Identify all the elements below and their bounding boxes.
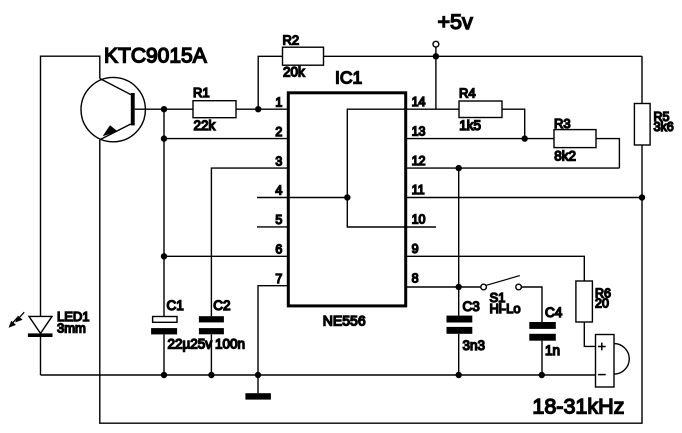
op-amp U1 IC1 NE556 body bbox=[288, 93, 405, 306]
transistor Q1 base bar bbox=[131, 93, 135, 125]
node pin12 junction bbox=[456, 165, 462, 171]
node C3 bottom bbox=[456, 372, 462, 378]
svg-text:13: 13 bbox=[412, 124, 426, 138]
wire pin 2 bbox=[164, 138, 288, 140]
pin 6 bbox=[275, 243, 282, 257]
svg-text:11: 11 bbox=[412, 183, 425, 197]
wire R3 to pin 12 bbox=[596, 139, 619, 169]
pin 5 bbox=[275, 213, 282, 227]
node pin2 junction bbox=[161, 135, 167, 141]
node C1 bottom bbox=[161, 372, 167, 378]
sounder piezo bbox=[596, 335, 630, 388]
wire pin 3 to C2 bbox=[211, 168, 288, 316]
pin 11 bbox=[412, 183, 425, 197]
svg-text:10: 10 bbox=[412, 213, 426, 227]
ground bbox=[245, 375, 271, 400]
wire pin 7 to ground bbox=[258, 286, 288, 375]
label +5v bbox=[438, 10, 474, 34]
wire LED to bottom bbox=[40, 337, 42, 375]
svg-text:5: 5 bbox=[275, 213, 282, 227]
wire R4 to pin 13 bbox=[502, 109, 525, 138]
svg-text:Hi-Lo: Hi-Lo bbox=[490, 301, 521, 316]
svg-text:100n: 100n bbox=[215, 336, 245, 351]
label NE556 bbox=[323, 313, 366, 329]
capacitor C2 bbox=[199, 298, 245, 351]
svg-text:R3: R3 bbox=[554, 116, 571, 131]
svg-text:IC1: IC1 bbox=[335, 68, 362, 88]
wire pin12 column to C3 bbox=[458, 168, 460, 316]
pin 7 bbox=[275, 272, 282, 286]
pin 14 bbox=[412, 95, 426, 109]
wire left column pin2-pin6-C1 bbox=[163, 109, 165, 316]
transistor Q1 circle bbox=[81, 77, 145, 141]
pin 10 bbox=[412, 213, 426, 227]
wire C4 to bottom bbox=[541, 341, 543, 375]
pin 12 bbox=[412, 154, 426, 168]
wire top-left bracket bbox=[41, 56, 100, 316]
node base junction bbox=[161, 106, 167, 112]
svg-text:18-31kHz: 18-31kHz bbox=[532, 394, 624, 418]
svg-text:8: 8 bbox=[412, 271, 419, 285]
svg-text:9: 9 bbox=[412, 242, 419, 256]
wire C3 to bottom bbox=[458, 334, 460, 375]
wire pin 13 bbox=[406, 138, 554, 140]
switch S1 bbox=[481, 276, 522, 316]
wire IC internal bbox=[347, 109, 436, 227]
wire pin 12 bbox=[406, 167, 620, 169]
LED LED1 bbox=[28, 309, 90, 337]
wire riser to R2 bbox=[258, 56, 282, 109]
wire right border and bottom border bbox=[100, 56, 642, 423]
LED arrows bbox=[9, 312, 25, 328]
capacitor C1 electrolytic bbox=[151, 298, 212, 351]
node internal junction bbox=[344, 194, 350, 200]
pin 8 bbox=[412, 271, 419, 285]
resistor R1 bbox=[193, 85, 236, 133]
svg-text:KTC9015A: KTC9015A bbox=[104, 45, 207, 68]
svg-text:1n: 1n bbox=[545, 343, 560, 358]
wire bottom rail bbox=[41, 374, 596, 376]
node R4-R3 junction bbox=[522, 135, 528, 141]
svg-text:8k2: 8k2 bbox=[554, 149, 576, 164]
svg-text:7: 7 bbox=[275, 272, 282, 286]
pin 1 bbox=[275, 95, 282, 109]
svg-text:3mm: 3mm bbox=[57, 320, 86, 335]
svg-text:3k6: 3k6 bbox=[654, 120, 674, 134]
node ground junction bbox=[255, 372, 261, 378]
transistor Q1 arrowhead bbox=[103, 125, 118, 136]
node +5v rail junction bbox=[433, 53, 439, 59]
terminal +5v bbox=[433, 41, 439, 56]
svg-text:R4: R4 bbox=[459, 86, 476, 101]
transistor label KTC9015A bbox=[104, 45, 207, 68]
svg-text:R1: R1 bbox=[193, 85, 210, 100]
resistor R6 bbox=[576, 281, 611, 322]
wire C1 to bottom bbox=[163, 334, 165, 375]
resistor R2 bbox=[283, 32, 324, 79]
svg-text:3: 3 bbox=[275, 154, 282, 168]
svg-text:2: 2 bbox=[275, 125, 282, 139]
resistor R3 bbox=[554, 116, 596, 164]
pin 2 bbox=[275, 125, 282, 139]
svg-text:1: 1 bbox=[275, 95, 282, 109]
pin 3 bbox=[275, 154, 282, 168]
svg-text:20: 20 bbox=[595, 297, 609, 311]
label IC1 bbox=[335, 68, 362, 88]
svg-text:3n3: 3n3 bbox=[463, 338, 486, 353]
svg-text:22k: 22k bbox=[194, 118, 216, 133]
svg-text:NE556: NE556 bbox=[323, 313, 366, 329]
wire base to R1 bbox=[135, 108, 193, 110]
pin 9 bbox=[412, 242, 419, 256]
wire pin 11 bbox=[406, 197, 642, 199]
transistor Q1 collector diagonal bbox=[100, 124, 131, 140]
capacitor C3 bbox=[447, 299, 486, 353]
capacitor C4 bbox=[529, 305, 562, 358]
svg-text:20k: 20k bbox=[283, 65, 305, 80]
svg-text:+5v: +5v bbox=[438, 10, 474, 34]
wire switch to C4 bbox=[521, 287, 542, 322]
svg-text:C1: C1 bbox=[167, 298, 184, 313]
resistor R5 bbox=[634, 104, 673, 146]
svg-text:22µ25v: 22µ25v bbox=[168, 336, 213, 351]
wire R6 to sounder bbox=[584, 322, 595, 346]
wire pin 8 to switch bbox=[406, 286, 481, 288]
node pin1 junction bbox=[255, 106, 261, 112]
node C4 bottom bbox=[539, 372, 545, 378]
wire pin 9 to R6 bbox=[406, 256, 585, 281]
svg-text:4: 4 bbox=[275, 184, 282, 198]
wire pin 6 bbox=[164, 255, 288, 257]
node C2 bottom bbox=[208, 372, 214, 378]
pin 4 bbox=[275, 184, 282, 198]
wire C2 to bottom bbox=[210, 334, 212, 375]
node pin8-C3 junction bbox=[456, 284, 462, 290]
label 18-31kHz bbox=[532, 394, 624, 418]
pin 13 bbox=[412, 124, 426, 138]
wire +5v rail bbox=[324, 55, 643, 57]
resistor R4 bbox=[459, 86, 502, 134]
wire pin 4 bbox=[257, 197, 347, 199]
wire rail to pin 14 bbox=[435, 56, 437, 109]
node pin6 junction bbox=[161, 253, 167, 259]
wire pin 5 stub bbox=[257, 226, 288, 228]
svg-text:R2: R2 bbox=[283, 32, 300, 47]
svg-text:C2: C2 bbox=[213, 298, 230, 313]
node pin11 junction bbox=[639, 194, 645, 200]
svg-text:C4: C4 bbox=[545, 305, 563, 320]
svg-text:14: 14 bbox=[412, 95, 426, 109]
svg-text:1k5: 1k5 bbox=[459, 118, 481, 133]
svg-text:6: 6 bbox=[275, 243, 282, 257]
svg-text:C3: C3 bbox=[463, 299, 480, 314]
wire pin 14 to R4 bbox=[406, 108, 459, 110]
wire R1 to pin 1 bbox=[236, 108, 288, 110]
svg-text:12: 12 bbox=[412, 154, 426, 168]
transistor Q1 emitter diagonal bbox=[100, 79, 131, 95]
